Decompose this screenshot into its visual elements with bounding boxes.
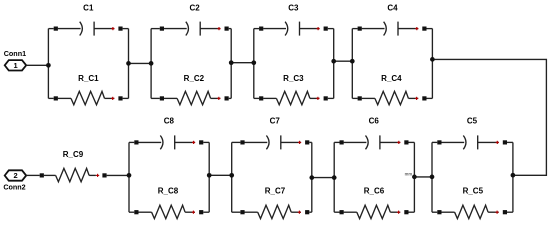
plus mark R_C4 (415, 97, 418, 100)
wire R_C3 to rail (328, 97, 334, 99)
wire C5 to rail (507, 141, 513, 143)
port square C6 left (340, 140, 344, 144)
wire rail to R_C7 (232, 211, 241, 213)
wire R_C9 to C8 block (107, 174, 129, 176)
port square R_C5 left (437, 210, 441, 214)
svg-text:C4: C4 (387, 3, 398, 12)
junction C7 left (229, 173, 234, 178)
svg-text:C3: C3 (288, 3, 299, 12)
label R_C4 (381, 74, 402, 83)
resistor R_C1 (58, 91, 115, 104)
junction C2 right (229, 60, 234, 65)
wire C2 block to C3 block (231, 62, 254, 64)
svg-text:R_C2: R_C2 (184, 74, 205, 83)
wire rail to R_C8 (129, 211, 134, 213)
wire rail to C6 (334, 141, 339, 143)
port square R_C9 left (40, 173, 44, 177)
resistor R_C6 (344, 205, 401, 218)
wire right rail of C5/R_C5 (512, 142, 514, 212)
junction C2 left (149, 61, 154, 66)
wire right rail of C4/R_C4 (431, 29, 433, 99)
wire rail to R_C4 (352, 97, 357, 99)
capacitor C3 (263, 22, 319, 36)
wire rail to R_C3 (254, 97, 259, 99)
junction C3 left (251, 60, 256, 65)
wire rail to R_C5 (432, 211, 437, 213)
svg-text:C6: C6 (369, 117, 380, 126)
resistor R_C8 (138, 205, 195, 218)
wire C7 block to C6 block (312, 177, 334, 179)
wire right rail of C2/R_C2 (230, 29, 232, 99)
port square R_C1 right (118, 96, 122, 100)
wire left rail of C5/R_C5 (431, 142, 433, 212)
port square C1 left (54, 27, 58, 31)
wire R_C7 to rail (309, 211, 312, 213)
wire rail to C5 (432, 141, 437, 143)
svg-text:C2: C2 (189, 3, 200, 12)
label R_C1 (78, 74, 99, 83)
port square R_C9 right (102, 173, 106, 177)
wire C4 block to C5 block right side (432, 59, 546, 175)
label C1 (83, 4, 94, 13)
wire rail to C1 (48, 28, 53, 30)
port square R_C8 left (134, 210, 138, 214)
wire C8 block to C7 block (209, 174, 232, 176)
wire R_C4 to rail (427, 97, 433, 99)
wire R_C8 to rail (203, 211, 209, 213)
port square R_C3 left (259, 96, 263, 100)
svg-text:R_C4: R_C4 (381, 74, 402, 83)
label C7 (270, 117, 281, 126)
plus mark R_C2 (217, 97, 220, 100)
plus mark R_C1 (111, 97, 114, 100)
wire right rail of C7/R_C7 (311, 142, 313, 212)
port square C4 right (422, 27, 426, 31)
resistor R_C9 (44, 168, 96, 181)
label Conn2 (3, 182, 25, 191)
junction C1 right (126, 61, 131, 66)
label R_C7 (265, 187, 286, 196)
svg-text:C7: C7 (270, 117, 281, 126)
plus mark R_C7 (298, 211, 301, 214)
port square C8 left (134, 140, 138, 144)
wire R_C2 to rail (229, 97, 232, 99)
capacitor C2 (164, 22, 221, 36)
port square C2 left (160, 27, 164, 31)
svg-text:R_C3: R_C3 (283, 74, 304, 83)
wire right rail of C8/R_C8 (208, 142, 210, 212)
label C6 (369, 117, 380, 126)
port square R_C8 right (199, 210, 203, 214)
wire R_C5 to rail (507, 211, 513, 213)
resistor R_C2 (164, 91, 221, 104)
port square R_C4 right (422, 96, 426, 100)
junction C5 left (430, 175, 435, 180)
svg-text:R_C6: R_C6 (364, 187, 385, 196)
wire C1 to rail (123, 28, 129, 30)
port square C4 left (358, 27, 362, 31)
svg-text:C5: C5 (467, 117, 478, 126)
label C4 (387, 3, 398, 12)
wire rail to C2 (151, 28, 160, 30)
port square C6 right (404, 140, 408, 144)
wire C3 to rail (328, 28, 334, 30)
wire left rail of C1/R_C1 (47, 29, 49, 99)
plus mark C4 (415, 27, 418, 30)
port square R_C7 right (305, 210, 309, 214)
port square C3 right (324, 27, 328, 31)
label C3 (288, 3, 299, 12)
plus mark C7 (298, 141, 301, 144)
capacitor C8 (138, 135, 195, 149)
port square C1 right (118, 27, 122, 31)
wire Conn2 to R_C9 (26, 174, 40, 176)
port square C5 left (437, 140, 441, 144)
svg-text:Conn2: Conn2 (3, 182, 25, 191)
plus mark C6 (397, 141, 400, 144)
wire R_C1 to rail (123, 97, 129, 99)
plus mark R_C8 (192, 211, 195, 214)
svg-text:C1: C1 (83, 4, 94, 13)
node A junction (46, 63, 51, 68)
label R_C5 (463, 187, 484, 196)
port square R_C2 left (160, 96, 164, 100)
label C2 (189, 3, 200, 12)
svg-text:2: 2 (14, 171, 18, 180)
plus mark R_C9 (96, 174, 99, 177)
wire rail to R_C6 (334, 211, 339, 213)
plus mark C2 (217, 27, 220, 30)
wire left rail of C7/R_C7 (231, 142, 233, 212)
resistor R_C3 (263, 91, 319, 104)
port square R_C7 left (240, 210, 244, 214)
wire rail to R_C2 (151, 97, 160, 99)
port square C7 right (305, 140, 309, 144)
wire left rail of C3/R_C3 (253, 29, 255, 99)
junction C8 right (207, 173, 212, 178)
port square C3 left (259, 27, 263, 31)
capacitor C4 (362, 22, 419, 36)
port Conn2 (5, 170, 27, 180)
junction C3 right (331, 59, 336, 64)
wire C6 block to C5 block (414, 176, 432, 178)
plus mark C8 (192, 141, 195, 144)
resistor R_C5 (441, 205, 498, 218)
port square C5 right (503, 140, 507, 144)
wire rail to R_C1 (48, 97, 53, 99)
wire right rail of C6/R_C6 (413, 142, 415, 212)
svg-text:R_C8: R_C8 (158, 187, 179, 196)
annotation mm (405, 171, 413, 176)
capacitor C5 (441, 135, 498, 149)
svg-text:Conn1: Conn1 (4, 49, 26, 58)
label R_C3 (283, 74, 304, 83)
plus mark R_C6 (397, 211, 400, 214)
junction C5 right (511, 173, 516, 178)
label C8 (164, 117, 175, 126)
resistor R_C4 (362, 91, 419, 104)
junction C4 left (350, 59, 355, 64)
wire C2 to rail (229, 28, 232, 30)
wire rail to C3 (254, 28, 259, 30)
port square C7 left (240, 140, 244, 144)
junction C6 left (332, 175, 337, 180)
wire left rail of C2/R_C2 (150, 29, 152, 99)
wire C1 block to C2 block (129, 62, 152, 64)
wire left rail of C8/R_C8 (128, 142, 130, 212)
capacitor C7 (245, 135, 302, 149)
junction C4 right (430, 57, 435, 62)
port square R_C5 right (503, 210, 507, 214)
wire Conn1 to node A (26, 64, 48, 66)
label R_C8 (158, 187, 179, 196)
capacitor C1 (58, 22, 115, 36)
port square R_C6 right (404, 210, 408, 214)
wire left rail of C4/R_C4 (351, 29, 353, 99)
wire rail to C7 (232, 141, 241, 143)
junction C8 left (127, 173, 132, 178)
port square R_C1 left (54, 96, 58, 100)
wire C8 to rail (203, 141, 209, 143)
label R_C6 (364, 187, 385, 196)
port square C2 right (225, 27, 229, 31)
port square R_C6 left (340, 210, 344, 214)
svg-text:R_C7: R_C7 (265, 187, 286, 196)
port square R_C4 left (358, 96, 362, 100)
port square C8 right (199, 140, 203, 144)
svg-text:1: 1 (14, 61, 18, 70)
junction C6 right (412, 175, 417, 180)
junction C7 right (309, 175, 314, 180)
label Conn1 (4, 49, 26, 58)
capacitor C6 (344, 135, 401, 149)
port square R_C2 right (225, 96, 229, 100)
wire left rail of C6/R_C6 (333, 142, 335, 212)
wire C7 to rail (309, 141, 312, 143)
wire right rail of C1/R_C1 (128, 29, 130, 99)
svg-text:R_C5: R_C5 (463, 187, 484, 196)
label R_C9 (63, 150, 84, 159)
svg-text:R_C1: R_C1 (78, 74, 99, 83)
wire C3 block to C4 block (334, 60, 353, 62)
wire C4 to rail (427, 28, 433, 30)
plus mark C3 (317, 27, 320, 30)
svg-text:mm: mm (405, 171, 413, 176)
plus mark R_C3 (316, 97, 319, 100)
label C5 (467, 117, 478, 126)
plus mark C5 (496, 141, 499, 144)
wire right rail of C3/R_C3 (333, 29, 335, 99)
plus mark C1 (111, 27, 114, 30)
wire rail to C8 (129, 141, 134, 143)
svg-text:R_C9: R_C9 (63, 150, 84, 159)
wire rail to C4 (352, 28, 357, 30)
port square R_C3 right (324, 96, 328, 100)
port Conn1 (5, 60, 27, 70)
label R_C2 (184, 74, 205, 83)
svg-text:C8: C8 (164, 117, 175, 126)
resistor R_C7 (245, 205, 302, 218)
plus mark R_C5 (496, 211, 499, 214)
wire R_C6 to rail (409, 211, 415, 213)
wire C6 to rail (409, 141, 415, 143)
